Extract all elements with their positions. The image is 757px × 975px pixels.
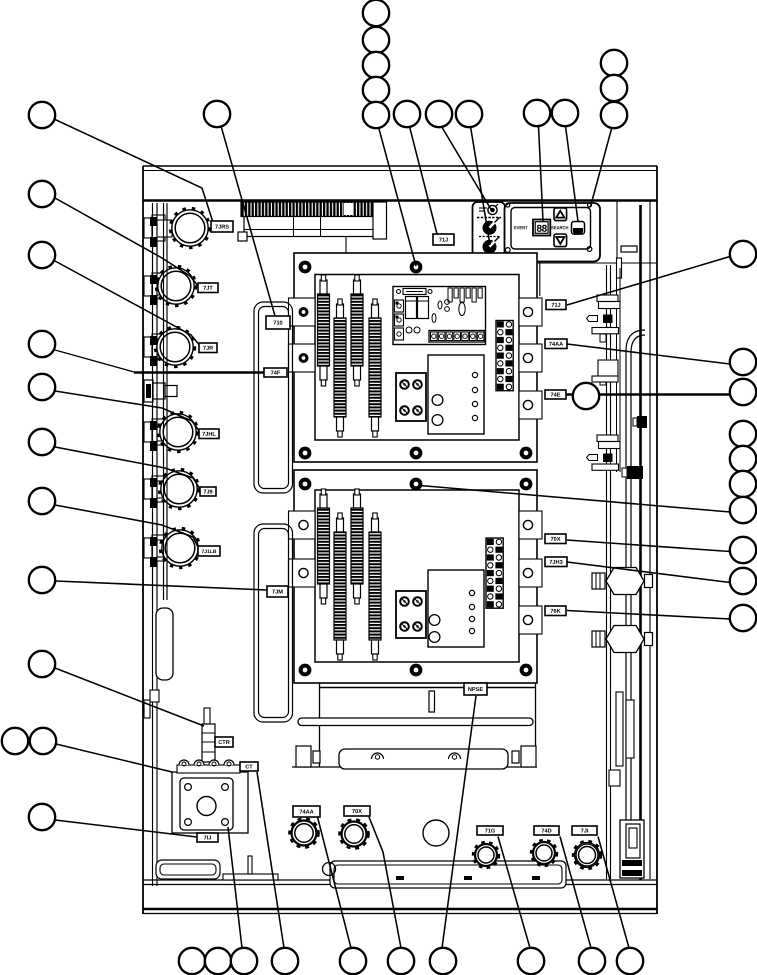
leader line bottom balloon to 71G <box>498 837 530 949</box>
upper plate screw top-center <box>410 261 423 274</box>
callout balloon top 2 <box>363 0 389 26</box>
callout balloon right 10 <box>730 605 756 631</box>
bulkhead bracket 7J9 <box>144 476 172 508</box>
lower terminal strip connector <box>486 538 503 608</box>
left rail lower bracket <box>156 608 173 680</box>
right rail vertical b <box>610 265 612 879</box>
leader line balloon7 to 7J1LB <box>55 505 199 548</box>
upper plate screw bottom-left <box>299 447 312 460</box>
circular connector 74D <box>531 840 557 866</box>
upper plate right tab 3 <box>519 391 542 419</box>
leader line right stack to panel screw <box>591 127 613 207</box>
down arrow button <box>554 234 567 247</box>
knob COUNTER RESET <box>483 218 500 235</box>
label 7JI <box>572 826 597 835</box>
upper terminal strip connector <box>496 321 513 391</box>
knob mid tiny text <box>479 236 499 238</box>
cabinet frame bottom line 1 <box>143 879 657 881</box>
upper ring terminal board <box>396 373 426 421</box>
callout balloon inline on 74E leader <box>573 383 599 409</box>
lower plate screw top-center <box>410 478 423 491</box>
right rail junction block 1 <box>633 416 647 428</box>
support rod <box>298 718 533 726</box>
svg-text:70X: 70X <box>352 809 362 815</box>
leader line bottom balloon to 70X label <box>369 817 401 948</box>
svg-text:71G: 71G <box>485 828 496 834</box>
callout balloon right 2 <box>730 349 756 375</box>
bulkhead fitting mid-left <box>144 380 177 402</box>
right rail bracket mid-1 <box>587 435 621 470</box>
upper control PCB sub-board <box>393 287 486 345</box>
upper plate screw bottom-center <box>410 447 423 460</box>
panel hole plain <box>423 820 449 846</box>
cabinet frame inner top line <box>143 170 657 172</box>
left mounting rail line d <box>166 203 168 600</box>
upper plate left tab 1 <box>289 298 316 326</box>
left mounting rail line a <box>152 203 154 886</box>
leader line top stack to plate screw <box>379 127 417 266</box>
bulkhead bracket 7J1LB <box>144 535 172 567</box>
lower PCB mounting plate <box>294 470 537 683</box>
leader line bottom balloon to 7JI <box>598 837 629 949</box>
resistor R2 lower <box>334 513 346 660</box>
label 71J right <box>546 300 566 310</box>
label CT <box>240 762 258 771</box>
label 7JRS <box>211 221 233 232</box>
resistor R1 lower <box>318 489 330 604</box>
callout balloon left 9 <box>29 651 55 677</box>
leader line balloon to knobs <box>471 127 491 246</box>
knob RESET LIGHT <box>483 237 500 254</box>
wire channel upper <box>254 302 293 493</box>
svg-text:CTR: CTR <box>218 740 230 746</box>
svg-text:74D: 74D <box>541 828 551 834</box>
right rail lower channel bar 1 <box>616 692 623 766</box>
callout balloon top 12 <box>601 50 627 76</box>
circular connector 7J9 <box>159 469 199 509</box>
label 7JR <box>199 343 217 353</box>
svg-text:70X: 70X <box>551 537 561 543</box>
leader line balloon5 to 7JHL <box>55 391 200 432</box>
assembly side wall left <box>319 683 321 767</box>
cabinet frame right edge <box>656 166 658 914</box>
cabinet frame thick rail below top band <box>143 199 657 202</box>
resistor R4 lower <box>369 513 381 660</box>
circular connector 7JI <box>573 841 601 869</box>
callout balloon bottom 2 <box>205 948 231 974</box>
callout balloon left 12 <box>29 804 55 830</box>
right rail vertical d <box>649 201 651 879</box>
wire from control panel to pcb <box>537 263 540 296</box>
lower plate screw top-left <box>299 478 312 491</box>
label 7J9 <box>200 487 216 496</box>
svg-text:74AA: 74AA <box>299 809 313 815</box>
power LED <box>488 204 498 215</box>
lower plate right tab 3 <box>519 606 542 634</box>
svg-text:7J9: 7J9 <box>203 489 212 495</box>
label 71J top <box>433 234 454 245</box>
callout balloon bottom 3 <box>231 948 257 974</box>
right rail standoff insulator 2 <box>592 626 653 653</box>
left mounting rail line c <box>163 203 165 600</box>
label CTR <box>215 737 233 747</box>
leader line balloon6 to 7J9 <box>55 447 200 489</box>
label 7JT <box>198 283 218 293</box>
resistor R2 upper <box>334 299 346 437</box>
right rail top post <box>617 258 622 278</box>
bulkhead bracket 7JR <box>144 334 172 366</box>
callout balloon left 5 <box>29 374 55 400</box>
leader line bottom balloon to NPSE <box>442 696 476 948</box>
leader line balloon4 to 74F <box>55 350 134 372</box>
leader line balloon to LED <box>442 127 493 212</box>
label 74F <box>264 368 287 377</box>
svg-text:7JR: 7JR <box>203 346 213 352</box>
svg-text:7IJ: 7IJ <box>204 835 212 841</box>
bulkhead bracket 7JT <box>144 273 172 305</box>
callout balloon left 2 <box>29 181 55 207</box>
callout balloon left 6 <box>29 429 55 455</box>
svg-text:NPSE: NPSE <box>468 687 484 693</box>
label NPSE <box>464 683 487 695</box>
bulkhead bracket 7JRS <box>144 215 172 247</box>
left rail overdraw d <box>166 205 168 600</box>
cabinet frame bottom edge <box>143 913 657 915</box>
callout balloon bottom 8 <box>518 948 544 974</box>
callout balloon left 7 <box>29 488 55 514</box>
lower plate screw bottom-left <box>299 664 312 677</box>
leader line right stack to lower plate screw <box>420 486 730 513</box>
svg-text:7JHL: 7JHL <box>202 432 216 438</box>
right rail top tab <box>621 246 637 252</box>
lower plate screw bottom-center <box>410 664 423 677</box>
svg-text:710: 710 <box>273 320 282 326</box>
event counter display 88 <box>533 220 550 236</box>
leader line balloon top-a to 710 <box>221 126 275 316</box>
sub-panel bottom tiny text <box>478 256 500 258</box>
leader line bottom balloon to 74D <box>560 837 591 949</box>
callout balloon left 10 <box>2 728 28 754</box>
callout balloon bottom 6 <box>388 948 414 974</box>
svg-text:76K: 76K <box>550 609 560 615</box>
resistor R3 lower <box>351 489 363 604</box>
right conduit pipe <box>626 330 645 841</box>
callout balloon bottom 4 <box>272 948 298 974</box>
upper plate right tab 1 <box>519 298 542 326</box>
right foot <box>512 746 536 767</box>
leader line right balloon to 74AA label <box>567 344 730 364</box>
left rail overdraw b <box>156 205 158 600</box>
bottom middle tray <box>330 861 566 888</box>
CTR relay component <box>202 708 215 762</box>
reset rocker switch <box>572 222 585 235</box>
leader line balloon11 to 7IJ <box>55 820 197 837</box>
lower PCB inner board <box>315 490 519 662</box>
label 70X bottom <box>344 806 370 816</box>
svg-text:88: 88 <box>537 224 548 235</box>
callout balloon bottom 10 <box>617 948 643 974</box>
callout balloon bottom 5 <box>340 948 366 974</box>
label 74AA bottom <box>293 806 320 817</box>
leader line right balloon to 70X <box>567 540 730 552</box>
circular connector 7JR <box>155 327 195 367</box>
left rail lower small parts <box>144 690 159 718</box>
label 7J1LB <box>198 546 220 556</box>
panel screw top-right <box>588 203 592 207</box>
right rail junction block 2 <box>622 466 643 479</box>
svg-text:7JH3: 7JH3 <box>549 560 562 566</box>
lower plate right tab 1 <box>519 511 542 539</box>
upper plate screw bottom-right <box>520 447 533 460</box>
svg-text:71J: 71J <box>551 303 560 309</box>
panel screw bottom-right <box>587 247 592 252</box>
callout balloon top 5 <box>363 77 389 103</box>
CT transformer box <box>172 772 248 833</box>
circular connector 7JHL <box>158 412 198 452</box>
callout balloon left 4 <box>29 331 55 357</box>
leader line balloon to 71J top label <box>410 127 438 235</box>
callout balloon right 7 <box>730 497 756 523</box>
right rail bracket upper-2 <box>592 360 618 385</box>
counter reset tiny text <box>477 217 501 219</box>
right rail channel walls <box>616 268 618 472</box>
svg-text:SEARCH: SEARCH <box>551 225 569 230</box>
svg-text:CT: CT <box>245 764 253 770</box>
leader line balloon1 to 7JRS <box>54 119 214 224</box>
leader line right balloon to 71J label <box>567 257 730 306</box>
lower plate left tab 1 <box>289 511 316 539</box>
assembly inner bottom line <box>320 687 536 689</box>
label 70X right <box>545 534 566 544</box>
leader line balloon2 to 7JT <box>55 198 198 286</box>
label 76K <box>545 606 566 616</box>
leader line bottom balloon to 74AA label <box>317 815 351 948</box>
callout balloon top 9 <box>456 101 482 127</box>
cabinet frame left edge <box>142 166 144 914</box>
event/search display panel <box>505 203 601 262</box>
wire channel lower <box>254 524 293 722</box>
left rail overdraw a <box>152 205 154 600</box>
callout balloon left 8 <box>29 567 55 593</box>
leader line bottom balloon to CT label <box>257 772 284 948</box>
callout balloon right 1 <box>730 241 756 267</box>
callout balloon right 9 <box>730 568 756 594</box>
right rail lower channel bar 2 <box>626 700 634 758</box>
upper plate screw top-left <box>299 261 312 274</box>
upper plate left tab 2 <box>289 344 316 372</box>
up arrow button <box>554 208 567 221</box>
circular connector 7J1LB <box>160 528 200 568</box>
post above tray <box>429 691 435 712</box>
upper plate right tab 2 <box>519 344 542 372</box>
lower ring terminal board <box>396 591 426 638</box>
svg-text:EVENT: EVENT <box>514 225 528 230</box>
callout balloon top 1 <box>204 101 230 127</box>
svg-text:7JT: 7JT <box>203 286 213 292</box>
screw below control panel <box>521 262 533 274</box>
circular connector 71G <box>473 842 499 868</box>
lower relay box <box>428 570 484 647</box>
label 74AA right <box>545 339 567 349</box>
leader line right balloon to 74E thick <box>567 393 731 395</box>
callout balloon top 3 <box>363 27 389 53</box>
label 7JH3 <box>545 557 567 567</box>
callout balloon top 10 <box>524 100 550 126</box>
right rail standoff insulator 1 <box>592 568 653 595</box>
label 74D <box>534 826 559 835</box>
circular connector 7JT <box>156 266 196 306</box>
callout balloon left 3 <box>29 242 55 268</box>
hole bottom-left of tray <box>323 863 336 876</box>
circular connector 70X bottom <box>340 820 369 849</box>
callout balloon right 8 <box>730 537 756 563</box>
svg-text:7JM: 7JM <box>272 589 283 595</box>
right rail vertical a <box>606 265 608 879</box>
circular connector 74AA bottom <box>290 819 319 848</box>
leader line right balloon to 76K <box>567 611 730 620</box>
leader line bottom balloon to CT screw <box>228 827 242 948</box>
callout balloon bottom 1 <box>179 948 205 974</box>
lower plate screw top-right <box>520 478 533 491</box>
upper PCB inner board <box>315 275 519 441</box>
callout balloon top 14 <box>601 102 627 128</box>
cabinet frame bottom thick rail <box>143 908 657 911</box>
assembly side wall right <box>535 683 537 767</box>
callout balloon top 11 <box>552 100 578 126</box>
resistor R4 upper <box>369 299 381 437</box>
left rail overdraw c <box>163 205 165 600</box>
svg-text:74E: 74E <box>551 392 561 398</box>
right rail lower small tab <box>609 770 620 786</box>
callout balloon top 4 <box>363 52 389 78</box>
leader line balloon9 to CTR <box>55 668 204 726</box>
label 7JHL <box>199 429 219 439</box>
panel screw bottom-left <box>505 248 510 253</box>
leader line balloon to rocker <box>566 126 579 222</box>
callout balloon right 3 <box>730 379 756 405</box>
right rail main vertical <box>639 205 642 880</box>
label 74E <box>545 390 566 399</box>
callout balloon left 11 <box>30 728 56 754</box>
lower plate screw bottom-right <box>520 664 533 677</box>
callout balloon top 7 <box>394 101 420 127</box>
heatsink fin block <box>238 202 387 253</box>
bottom plate <box>223 874 278 880</box>
svg-text:74AA: 74AA <box>549 342 563 348</box>
label 710 <box>266 316 290 329</box>
lower plate right tab 2 <box>519 559 542 587</box>
upper PCB mounting plate <box>294 253 537 462</box>
leader line balloon to display <box>539 126 544 221</box>
left foot <box>296 746 320 767</box>
right rail bracket upper-1 <box>587 295 621 342</box>
svg-text:7JI: 7JI <box>581 828 589 834</box>
right rail bottom connector stack <box>620 820 644 878</box>
lower plate left tab 2 <box>289 559 316 587</box>
callout balloon right 5 <box>730 446 756 472</box>
svg-text:7JRS: 7JRS <box>215 224 229 230</box>
assembly bottom line <box>292 766 537 768</box>
leader line balloon3 to 7JR <box>55 261 200 345</box>
resistor R3 upper <box>351 275 363 386</box>
lower bracket tray <box>339 749 508 769</box>
callout balloon right 4 <box>730 421 756 447</box>
callout balloon top 13 <box>601 75 627 101</box>
resistor R1 upper <box>318 275 330 386</box>
control panel mounting plate <box>505 201 657 263</box>
cabinet frame bottom line 2 <box>143 884 657 886</box>
leader line balloon8 to 7JM <box>56 581 268 590</box>
CT terminal row <box>177 760 240 773</box>
bottom post <box>248 856 252 874</box>
svg-text:7J1LB: 7J1LB <box>201 549 216 555</box>
callout balloon bottom 9 <box>579 948 605 974</box>
counter reset sub-panel <box>473 202 506 262</box>
left mounting rail line b <box>156 203 158 886</box>
upper relay box <box>428 355 484 434</box>
svg-text:71J: 71J <box>439 237 448 243</box>
label 7IJ <box>197 833 218 842</box>
label 71G <box>477 826 503 835</box>
circular connector 7JRS <box>170 208 210 248</box>
bulkhead bracket 7JHL <box>144 419 172 451</box>
callout balloon top 8 <box>426 101 452 127</box>
bottom left tray <box>156 860 220 879</box>
label 7JM <box>267 586 288 597</box>
callout balloon bottom 7 <box>430 948 456 974</box>
callout balloon top 6 <box>363 102 389 128</box>
callout balloon right 6 <box>730 471 756 497</box>
svg-text:74F: 74F <box>271 370 281 376</box>
leader line balloon10 to CT box <box>56 744 172 772</box>
callout balloon left 1 <box>29 102 55 128</box>
panel screw top-left <box>506 203 510 207</box>
cabinet frame outer top line <box>143 165 657 167</box>
leader line right balloon to 7JH3 <box>567 562 730 583</box>
